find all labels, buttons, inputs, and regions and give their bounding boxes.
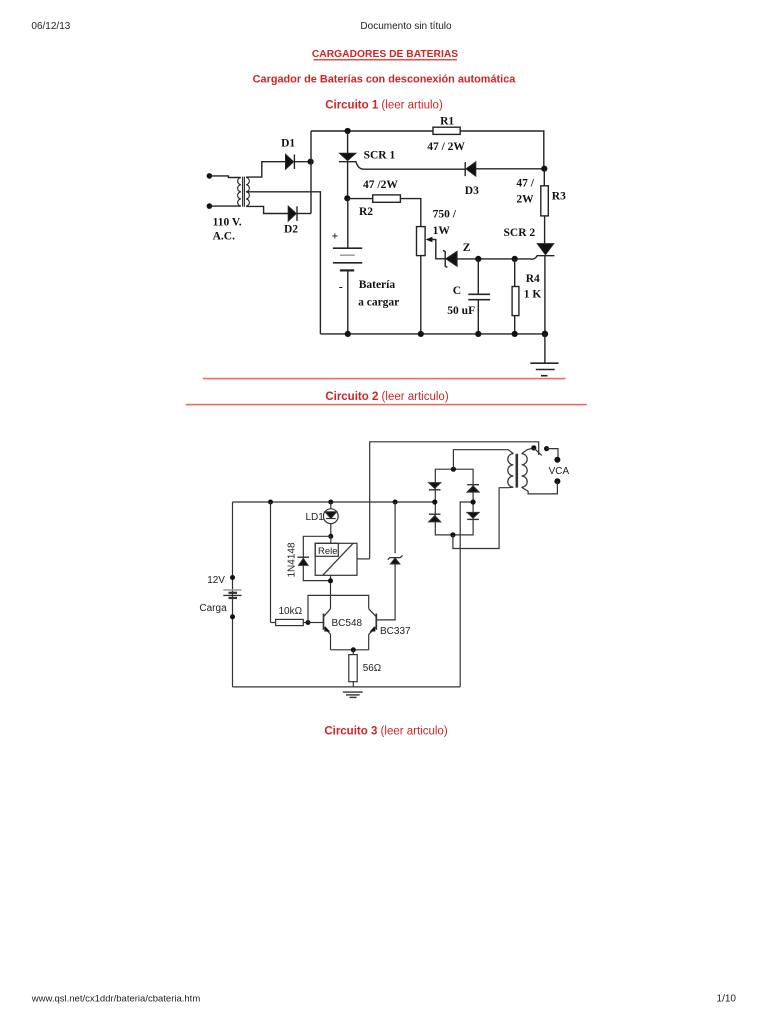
junction node C bottom (475, 331, 481, 337)
junction node R4 bottom (512, 331, 518, 337)
circuit 2 schematic (199, 442, 569, 698)
wire secondary center tap to bottom rail (246, 192, 320, 334)
wire SCR1 anode (347, 131, 349, 153)
svg-text:R1: R1 (440, 116, 454, 128)
resistor R3 (541, 186, 549, 216)
ground circuit 1 (530, 363, 558, 376)
wire emitter rail (331, 649, 369, 651)
junction node BC548 base (306, 620, 311, 625)
diode D2 (288, 206, 297, 221)
wire freewheel diode loop (303, 536, 331, 580)
wire rectifier vertical (310, 131, 312, 214)
resistor R1 (433, 127, 460, 134)
battery 12V Carga (223, 590, 241, 598)
terminal dot input bottom (207, 203, 213, 209)
wire secondary bottom to VCA bottom (522, 481, 558, 494)
switch pivot node (531, 445, 536, 450)
wire R3 to SCR2 (544, 216, 546, 244)
svg-text:110 V.: 110 V. (213, 217, 242, 229)
svg-text:-: - (339, 281, 343, 293)
svg-text:VCA: VCA (549, 466, 570, 477)
diode D1 (286, 154, 295, 169)
page title underline (314, 59, 458, 60)
svg-text:10kΩ: 10kΩ (279, 606, 303, 617)
junction node D1 output (308, 159, 314, 165)
wire secondary top to D1 (246, 162, 285, 177)
wire top rail (311, 131, 544, 169)
svg-text:47 /: 47 / (516, 177, 534, 189)
wire bridge top to transformer primary (453, 450, 513, 470)
wire ground stem (544, 334, 546, 363)
wire input bottom to transformer primary (209, 205, 240, 207)
svg-text:R2: R2 (359, 206, 373, 218)
svg-text:BC337: BC337 (380, 626, 411, 637)
wire relay top lead (330, 536, 332, 543)
wire zener to SCR2 gate (457, 258, 531, 260)
wire bottom rail (233, 686, 461, 688)
svg-text:www.qsl.net/cx1ddr/bateria/cba: www.qsl.net/cx1ddr/bateria/cbateria.htm (31, 994, 201, 1005)
junction node C top (475, 256, 481, 262)
diode 1N4148 (298, 557, 310, 565)
transformer T1 (238, 177, 250, 207)
LED LD1 (323, 502, 338, 536)
svg-text:LD1: LD1 (306, 512, 325, 523)
junction node battery minus (230, 614, 235, 619)
svg-text:Rele: Rele (318, 546, 338, 557)
junction node bridge top (451, 467, 456, 472)
svg-text:Circuito 3 (leer articulo): Circuito 3 (leer articulo) (324, 726, 448, 738)
junction node battery plus (230, 575, 235, 580)
wire R2 left lead (347, 198, 372, 200)
wire battery column (232, 502, 234, 687)
SCR 2 (531, 244, 555, 260)
wire switch contact to VCA top (547, 449, 558, 460)
zener diode circuit2 (377, 502, 403, 620)
wire bridge AC right column (460, 502, 473, 687)
svg-text:C: C (453, 285, 461, 297)
resistor 56 ohm (349, 650, 357, 687)
circuit 1 schematic (207, 116, 567, 376)
wire bridge bottom to transformer primary bottom (453, 487, 514, 548)
transistor BC337 (369, 609, 377, 650)
terminal node VCA bottom (554, 478, 560, 484)
svg-text:Cargador de Baterías con desco: Cargador de Baterías con desconexión aut… (253, 73, 517, 85)
junction node relay bottom (328, 578, 333, 583)
switch contact node (544, 446, 549, 451)
switch blade (534, 448, 542, 456)
wire secondary top to switch pivot (522, 448, 534, 454)
potentiometer 750/1W (417, 227, 446, 259)
bridge diode bottom-right (467, 512, 479, 519)
bridge diode bottom-left (429, 514, 441, 522)
junction node potentiometer bottom (418, 331, 424, 337)
svg-text:50 uF: 50 uF (447, 305, 475, 317)
wire SCR1 cathode to R2 node (347, 162, 349, 199)
zener diode Z (443, 250, 457, 267)
wire R2 right to potentiometer top (400, 199, 420, 227)
wire SCR2 cathode down to rail (544, 256, 546, 334)
junction node zener top (393, 500, 398, 505)
relay Rele (315, 543, 357, 575)
svg-text:47 /2W: 47 /2W (363, 179, 398, 191)
junction node bridge left (432, 499, 437, 504)
diode D3 (465, 162, 476, 176)
svg-text:Documento sin título: Documento sin título (360, 21, 452, 32)
svg-text:SCR 1: SCR 1 (364, 150, 396, 162)
capacitor C (468, 259, 490, 334)
wire secondary bottom to D2 (246, 206, 288, 213)
wire collector rail (308, 595, 369, 622)
bridge diode top-left (429, 483, 441, 490)
svg-text:CARGADORES DE BATERIAS: CARGADORES DE BATERIAS (312, 49, 458, 60)
wire relay bottom lead (330, 575, 332, 595)
junction node bridge bottom (450, 532, 455, 537)
wire SCR1 gate to D3 (364, 168, 465, 170)
transformer T2 (508, 454, 527, 488)
separator red line 2 (186, 404, 587, 406)
svg-text:2W: 2W (516, 193, 534, 205)
svg-text:A.C.: A.C. (213, 231, 235, 243)
svg-text:06/12/13: 06/12/13 (31, 21, 70, 32)
svg-text:a cargar: a cargar (358, 296, 399, 308)
svg-text:D3: D3 (465, 185, 479, 197)
junction node ground corner (542, 331, 549, 338)
wire D3 to R3 node (476, 168, 545, 170)
svg-text:Circuito 2 (leer articulo): Circuito 2 (leer articulo) (325, 391, 449, 403)
junction node bridge right (471, 499, 476, 504)
svg-text:R4: R4 (526, 273, 540, 285)
junction node LED top (328, 500, 333, 505)
terminal node VCA top (554, 457, 560, 463)
wire base lead BC548 (308, 622, 323, 624)
wire relay contact feed top rail (370, 442, 539, 559)
svg-text:R3: R3 (552, 191, 566, 203)
svg-text:Circuito 1 (leer artiulo): Circuito 1 (leer artiulo) (325, 99, 443, 111)
junction node battery bottom (345, 331, 351, 337)
bridge rectifier frame (435, 469, 473, 535)
junction node 10k top (268, 500, 273, 505)
svg-text:56Ω: 56Ω (363, 663, 382, 674)
svg-text:SCR 2: SCR 2 (504, 227, 536, 239)
wire potentiometer bottom to rail (420, 256, 422, 334)
resistor R4 (512, 259, 519, 334)
junction node top rail / SCR1 (345, 128, 351, 134)
svg-text:12V: 12V (207, 575, 225, 586)
svg-text:1 K: 1 K (524, 289, 542, 301)
wire D1 to junction (294, 161, 311, 163)
svg-text:BC548: BC548 (332, 618, 363, 629)
svg-text:Z: Z (463, 242, 471, 254)
svg-text:1/10: 1/10 (717, 993, 737, 1004)
resistor 10k (271, 502, 309, 626)
svg-text:750 /: 750 / (433, 209, 457, 221)
junction node R3 top (541, 166, 547, 172)
wire main positive rail (233, 501, 435, 503)
SCR 1 (339, 153, 364, 169)
svg-text:47 / 2W: 47 / 2W (427, 141, 465, 153)
wire input top to transformer primary (209, 176, 240, 178)
svg-text:D2: D2 (284, 223, 298, 235)
wire D2 to vertical (297, 213, 311, 215)
resistor R2 (373, 195, 401, 202)
junction node R2 left (344, 195, 350, 201)
wire battery top lead (347, 198, 349, 248)
svg-text:1N4148: 1N4148 (287, 542, 298, 577)
wire relay coil right lead (357, 558, 370, 560)
battery Bateria a cargar (333, 248, 362, 334)
junction node emitter rail (351, 647, 356, 652)
bridge diode top-right (467, 485, 479, 492)
junction node LED cathode (328, 534, 333, 539)
transistor BC548 (324, 595, 331, 649)
ground circuit 2 (343, 692, 363, 697)
svg-text:Carga: Carga (199, 603, 227, 614)
svg-text:+: + (332, 231, 339, 243)
terminal dot input top (207, 173, 213, 179)
wire R3 top lead (543, 169, 545, 186)
svg-text:D1: D1 (281, 138, 295, 150)
svg-text:1W: 1W (433, 225, 451, 237)
svg-text:Batería: Batería (359, 279, 396, 291)
separator red line 1 (203, 378, 566, 380)
junction node R4 top (512, 256, 518, 262)
wire bottom rail (320, 333, 545, 335)
